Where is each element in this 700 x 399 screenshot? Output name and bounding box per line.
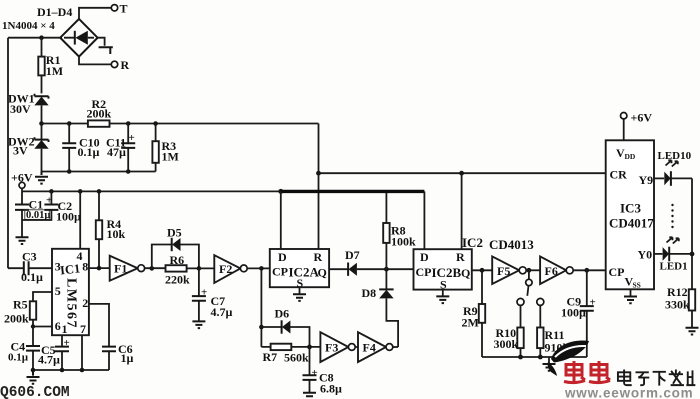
svg-text:D8: D8 bbox=[362, 286, 377, 300]
svg-text:100µ: 100µ bbox=[561, 305, 586, 319]
svg-text:D7: D7 bbox=[345, 248, 360, 262]
svg-text:LM567: LM567 bbox=[64, 278, 79, 329]
inverter F1 bbox=[110, 256, 145, 281]
wire IC2A Q out bbox=[329, 268, 348, 270]
svg-text:F2: F2 bbox=[219, 262, 232, 276]
svg-text:D6: D6 bbox=[275, 307, 290, 321]
zener DW1 bbox=[8, 92, 49, 124]
svg-text:www.eeworm.com: www.eeworm.com bbox=[564, 386, 693, 399]
svg-text:0.1µ: 0.1µ bbox=[8, 352, 29, 364]
wire F2 out to CP bbox=[247, 266, 270, 271]
svg-text:T: T bbox=[120, 2, 128, 16]
resistor R12 bbox=[665, 285, 695, 328]
svg-text:47µ: 47µ bbox=[107, 145, 126, 159]
svg-text:Q606.COM: Q606.COM bbox=[0, 385, 70, 399]
wire F1 out bbox=[145, 266, 166, 271]
svg-text:CR: CR bbox=[610, 168, 628, 182]
resistor R4 bbox=[96, 191, 126, 268]
svg-text:DD: DD bbox=[625, 152, 636, 161]
svg-text:6.8µ: 6.8µ bbox=[320, 382, 342, 396]
svg-text:SS: SS bbox=[633, 281, 641, 290]
wire +6V rail bbox=[22, 189, 283, 194]
inverter F4 bbox=[358, 332, 398, 362]
svg-text:2M: 2M bbox=[462, 316, 479, 330]
label IC2 CD4013 bbox=[462, 235, 534, 252]
svg-text:1N4004 × 4: 1N4004 × 4 bbox=[2, 20, 55, 32]
switch contact bbox=[526, 270, 532, 296]
svg-text:+: + bbox=[312, 367, 318, 379]
capacitor C4 bbox=[8, 327, 40, 371]
resistor R1 bbox=[38, 38, 63, 94]
bridge rectifier D1-D4 bbox=[2, 5, 98, 57]
watermark red chongchong bbox=[564, 361, 610, 384]
svg-text:0.1µ: 0.1µ bbox=[21, 270, 43, 284]
svg-text:560k: 560k bbox=[284, 351, 309, 365]
watermark Q606.COM bbox=[0, 385, 70, 399]
svg-text:R: R bbox=[314, 250, 323, 264]
resistor R6 bbox=[165, 253, 214, 287]
svg-text:CP: CP bbox=[416, 265, 432, 279]
terminal T bbox=[79, 2, 128, 19]
svg-text:8: 8 bbox=[82, 260, 88, 274]
svg-text:1M: 1M bbox=[162, 149, 179, 163]
svg-text:300k: 300k bbox=[494, 337, 519, 351]
wire IC2B R stem bbox=[461, 173, 463, 249]
svg-text:100µ: 100µ bbox=[56, 209, 81, 223]
counter IC3 CD4017 bbox=[606, 140, 655, 289]
svg-text:R: R bbox=[121, 58, 130, 72]
terminal R bbox=[79, 57, 130, 72]
watermark bug logo wing bbox=[548, 341, 589, 376]
capacitor C9 bbox=[561, 270, 596, 357]
svg-text:+: + bbox=[129, 132, 135, 144]
capacitor C7 bbox=[192, 268, 233, 321]
dotted line LED2..LED9 bbox=[671, 204, 673, 228]
resistor R2 bbox=[87, 97, 112, 127]
svg-text:+: + bbox=[64, 337, 70, 349]
diode D5 bbox=[152, 226, 199, 269]
earpiece symbol bbox=[98, 38, 113, 54]
svg-text:200k: 200k bbox=[4, 312, 29, 326]
resistor R11 bbox=[537, 298, 570, 357]
svg-text:+: + bbox=[201, 287, 207, 299]
svg-text:Q: Q bbox=[461, 266, 470, 280]
resistor R5 bbox=[4, 292, 52, 329]
wire filter bottom rail bbox=[42, 169, 156, 174]
svg-text:R: R bbox=[456, 250, 465, 264]
svg-text:F6: F6 bbox=[545, 264, 558, 278]
LED LED1 bbox=[654, 237, 692, 272]
capacitor C10 bbox=[62, 124, 99, 172]
svg-text:1µ: 1µ bbox=[121, 351, 134, 365]
svg-text:CP: CP bbox=[272, 265, 288, 279]
svg-text:IC2: IC2 bbox=[462, 235, 483, 250]
wire IC1 pin4 stem bbox=[79, 191, 81, 248]
wire bottom rail bbox=[482, 355, 587, 360]
svg-text:D1–D4: D1–D4 bbox=[37, 5, 72, 19]
inverter F2 bbox=[214, 255, 247, 283]
svg-text:0.1µ: 0.1µ bbox=[78, 145, 100, 159]
wire pin8 to F1 bbox=[89, 266, 110, 271]
node +6V (IC3) bbox=[621, 111, 653, 141]
wire IC2A D stem bbox=[280, 191, 282, 249]
capacitor C1 bbox=[15, 191, 50, 236]
wire filter top rail bbox=[42, 121, 319, 126]
svg-text:4.7µ: 4.7µ bbox=[211, 305, 233, 319]
ground (R12) bbox=[686, 328, 699, 335]
ground (IC2A S) bbox=[293, 287, 306, 301]
svg-text:CP: CP bbox=[609, 265, 625, 279]
svg-text:LED10: LED10 bbox=[658, 150, 692, 162]
inverter F5 bbox=[492, 256, 526, 284]
wire F5 out bbox=[526, 268, 540, 273]
wire +6V rail thick bbox=[281, 191, 425, 249]
svg-text:D5: D5 bbox=[167, 226, 182, 240]
svg-text:+: + bbox=[590, 297, 596, 309]
svg-text:100k: 100k bbox=[391, 234, 416, 248]
wire reset line down bbox=[318, 124, 320, 174]
svg-text:CD4017: CD4017 bbox=[609, 216, 654, 231]
zener DW2 bbox=[8, 121, 49, 171]
ground (C7) bbox=[192, 321, 205, 328]
capacitor C8 bbox=[303, 347, 343, 396]
resistor R10 bbox=[494, 298, 525, 357]
svg-text:LED1: LED1 bbox=[660, 261, 688, 273]
ground (DW2) bbox=[35, 172, 48, 184]
svg-text:R6: R6 bbox=[170, 253, 185, 267]
svg-text:Q: Q bbox=[318, 266, 327, 280]
inverter F3 bbox=[320, 332, 355, 362]
svg-text:S: S bbox=[440, 278, 447, 292]
capacitor C11 bbox=[106, 124, 135, 172]
svg-text:F4: F4 bbox=[363, 341, 376, 355]
ground (IC2B S) bbox=[436, 290, 449, 304]
svg-text:1M: 1M bbox=[46, 64, 63, 78]
wire F6 out to CP bbox=[573, 268, 606, 273]
svg-text:+: + bbox=[46, 195, 52, 207]
svg-text:R7: R7 bbox=[263, 350, 278, 364]
node +6V terminal bbox=[11, 171, 33, 192]
svg-text:F3: F3 bbox=[325, 341, 338, 355]
svg-text:IC3: IC3 bbox=[620, 201, 641, 216]
inverter F6 bbox=[540, 256, 573, 284]
ground (C1) bbox=[16, 237, 29, 244]
svg-text:330k: 330k bbox=[665, 298, 690, 312]
svg-text:D: D bbox=[278, 250, 287, 264]
svg-text:30V: 30V bbox=[10, 102, 31, 116]
ground (IC1) bbox=[27, 370, 40, 384]
resistor R7 bbox=[261, 344, 320, 365]
svg-text:C3: C3 bbox=[22, 250, 37, 264]
capacitor C3 bbox=[8, 250, 52, 285]
svg-text:Y0: Y0 bbox=[638, 248, 653, 262]
resistor R9 bbox=[462, 270, 486, 357]
wire LED bus bbox=[690, 178, 695, 289]
wire IC1 pin7 stem bbox=[81, 335, 83, 370]
diode D7 bbox=[345, 248, 414, 276]
svg-text:10k: 10k bbox=[107, 227, 126, 241]
svg-text:7: 7 bbox=[80, 322, 86, 336]
svg-text:5: 5 bbox=[55, 284, 61, 298]
ground (IC3 Vss) bbox=[624, 289, 637, 303]
watermark dianzi text bbox=[618, 369, 695, 385]
svg-text:F5: F5 bbox=[497, 264, 510, 278]
svg-text:F1: F1 bbox=[114, 262, 127, 276]
wire IC1 ground rail bbox=[31, 368, 109, 373]
ground (C8) bbox=[303, 393, 316, 396]
wire F3 out bbox=[355, 346, 358, 348]
wire F2-node down bbox=[259, 268, 264, 347]
capacitor C2 bbox=[22, 191, 81, 223]
watermark www.eeworm.com bbox=[564, 386, 693, 399]
LED LED10 bbox=[654, 150, 692, 186]
resistor R8 bbox=[383, 193, 416, 269]
svg-text:4.7µ: 4.7µ bbox=[38, 353, 60, 367]
wire CR line bbox=[316, 171, 606, 176]
svg-text:200k: 200k bbox=[87, 107, 112, 121]
capacitor C5 bbox=[38, 335, 70, 370]
wire bridge left bbox=[8, 35, 62, 40]
svg-text:6: 6 bbox=[55, 319, 61, 333]
svg-text:CD4013: CD4013 bbox=[489, 237, 534, 252]
capacitor C6 bbox=[89, 304, 134, 370]
svg-text:2: 2 bbox=[82, 296, 88, 310]
ground (bottom rail) bbox=[543, 357, 556, 371]
svg-text:Y9: Y9 bbox=[639, 173, 654, 187]
diode D8 bbox=[362, 269, 399, 347]
svg-text:IC1: IC1 bbox=[59, 261, 81, 277]
wire left rail bbox=[7, 38, 9, 269]
svg-text:IC2A: IC2A bbox=[289, 265, 320, 280]
wire IC2A R stem bbox=[318, 173, 320, 249]
resistor R3 bbox=[152, 124, 178, 172]
svg-text:+6V: +6V bbox=[631, 111, 653, 125]
wire IC2B Q out bbox=[472, 268, 492, 273]
svg-text:3V: 3V bbox=[13, 143, 28, 157]
flip-flop IC2B bbox=[414, 249, 472, 291]
diode D6 bbox=[261, 307, 309, 347]
flip-flop IC2A bbox=[270, 249, 329, 290]
svg-text:220k: 220k bbox=[165, 273, 190, 287]
svg-text:R5: R5 bbox=[13, 298, 28, 312]
svg-text:D: D bbox=[420, 250, 429, 264]
op-amp U IC1 LM567 bbox=[52, 249, 89, 336]
